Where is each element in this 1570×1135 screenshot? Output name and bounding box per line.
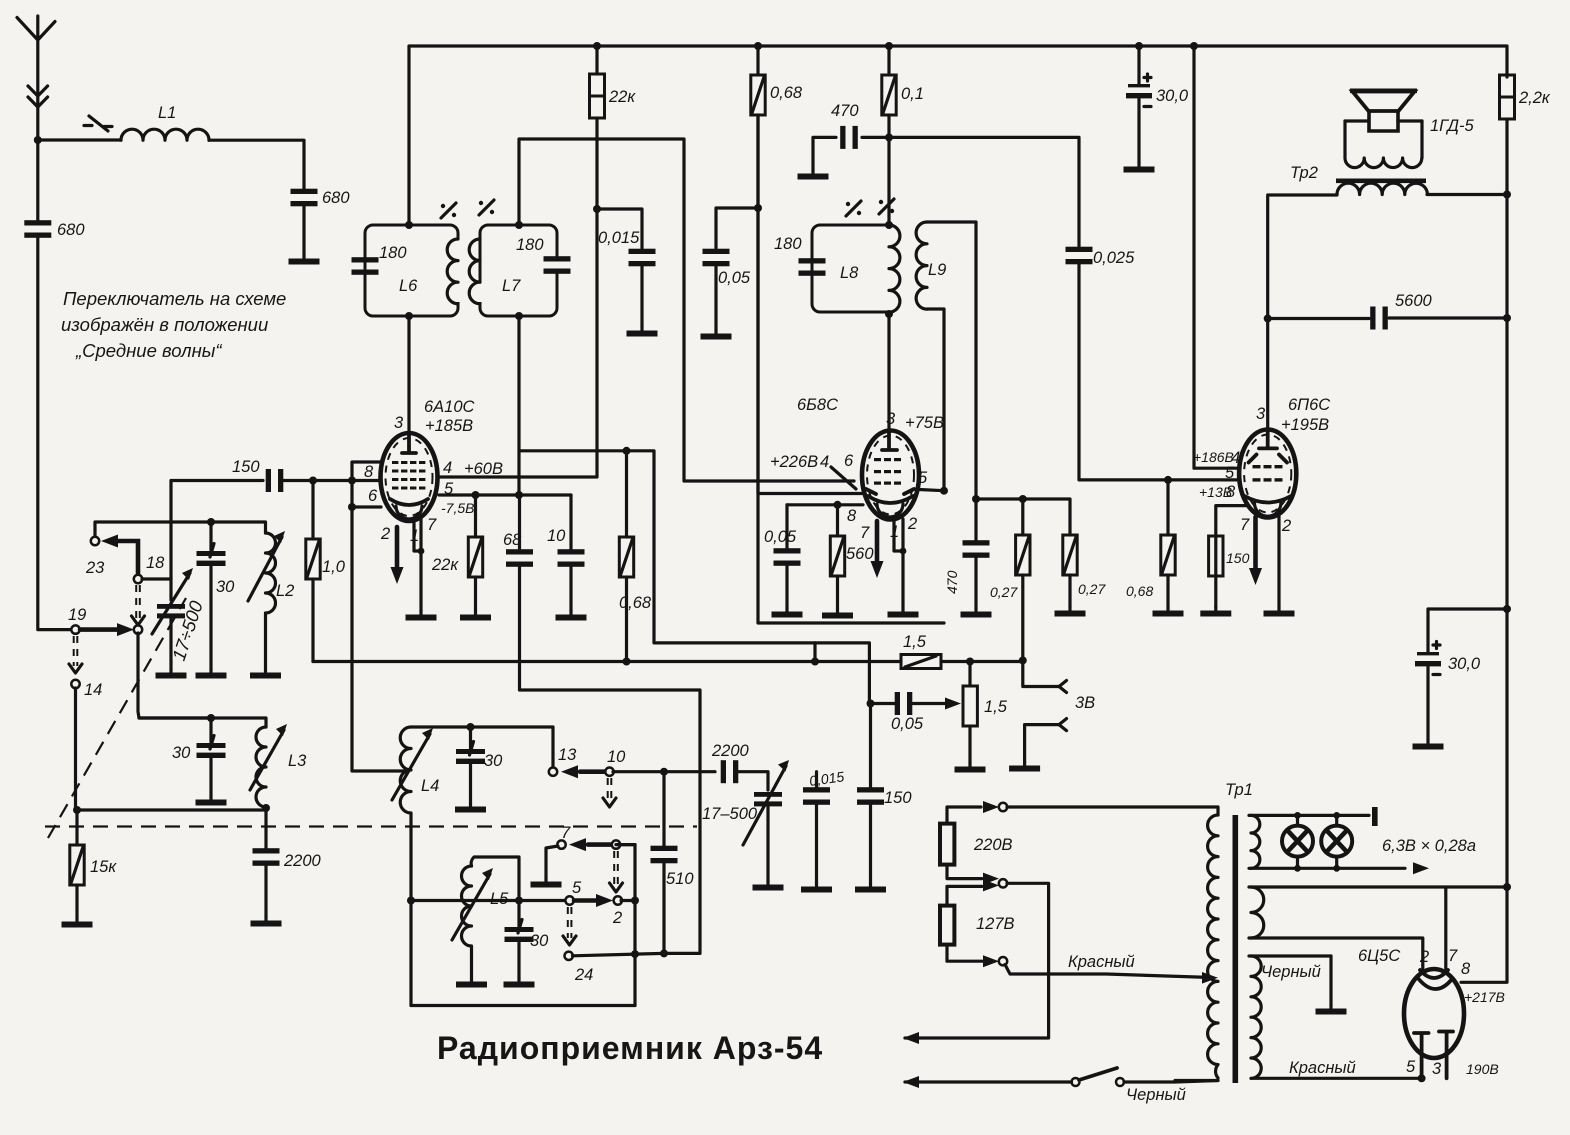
tube U3 6П6С envelope — [1239, 430, 1296, 518]
svg-text:680: 680 — [322, 189, 350, 207]
svg-text:L3: L3 — [288, 752, 307, 770]
wire 22к column down to pin4 — [439, 209, 597, 477]
svg-text:-7,5В: -7,5В — [441, 500, 474, 516]
wire Черный to ground — [1329, 956, 1332, 1005]
svg-text:Красный: Красный — [1289, 1059, 1356, 1077]
inductor L3 — [256, 727, 266, 807]
svg-text:3: 3 — [394, 414, 404, 432]
contact 24 — [565, 952, 573, 960]
wire grid line from 150 cap — [280, 479, 381, 482]
node anode / 5600 — [1264, 315, 1272, 323]
node antenna junction — [34, 136, 42, 144]
wire 127В bottom — [947, 945, 982, 962]
svg-text:„Средние волны“: „Средние волны“ — [75, 340, 222, 361]
tube U2 cathode arrow — [875, 521, 880, 562]
svg-text:Черный: Черный — [1126, 1086, 1186, 1104]
Тр1 HV winding — [1251, 956, 1422, 1078]
svg-text:3: 3 — [886, 410, 896, 428]
capacitor 2200 — [253, 848, 280, 866]
switch arm 10-13 — [580, 769, 605, 774]
svg-text:Тр1: Тр1 — [1225, 781, 1253, 799]
tube U4 heater arcs — [1420, 970, 1448, 978]
capacitor 180 (L8) — [799, 258, 826, 276]
svg-text:2,2к: 2,2к — [1518, 89, 1551, 107]
svg-text:510: 510 — [666, 870, 694, 888]
core adjust mark L7 — [479, 200, 494, 215]
wire middle contact loop — [905, 883, 1049, 1038]
speaker 1ГД-5 — [1369, 111, 1398, 132]
wire 0,1 column to L8 to tube2 pin3 — [887, 137, 890, 431]
svg-text:2: 2 — [380, 525, 390, 543]
svg-text:5: 5 — [572, 879, 582, 897]
tube U3 pin2 ground — [1277, 516, 1280, 607]
wire 2200 to osc tuning cap — [738, 772, 768, 790]
svg-text:5: 5 — [918, 469, 928, 487]
contact mains bottom — [999, 957, 1007, 965]
capacitor 180 (L7) — [544, 256, 571, 274]
wire 220В top — [947, 807, 981, 824]
svg-text:Тр2: Тр2 — [1290, 164, 1318, 182]
resistor 0,68 (osc anode) — [625, 451, 628, 537]
switch arm 19 — [80, 627, 117, 632]
svg-text:127В: 127В — [976, 915, 1015, 933]
tube U3 plate — [1259, 429, 1277, 448]
dashed link 5-24 — [568, 907, 572, 938]
wire L1 to C2 — [209, 140, 304, 192]
wire 127В top to middle contact — [947, 886, 982, 905]
dashed link 7b-2 — [614, 851, 618, 885]
svg-text:+186В: +186В — [1193, 449, 1234, 465]
svg-text:1,0: 1,0 — [322, 558, 346, 576]
electrolytic capacitor 30,0 — [1137, 46, 1140, 84]
svg-text:470: 470 — [944, 570, 960, 594]
tube U4 plates — [1414, 1032, 1453, 1079]
svg-text:+75В: +75В — [905, 414, 944, 432]
svg-text:2: 2 — [907, 515, 917, 533]
dashed gang diagonal — [48, 598, 186, 838]
trimmer 30 (L5) — [505, 920, 534, 943]
resistor 0,68 (grid leak U3) — [1166, 480, 1169, 535]
wire 10 to 2200 — [613, 770, 715, 773]
wire AVC row — [976, 499, 1070, 535]
dash-dot gang line — [45, 825, 697, 827]
svg-text:0,68: 0,68 — [770, 84, 803, 102]
svg-text:L4: L4 — [421, 777, 439, 795]
svg-text:17–500: 17–500 — [702, 805, 758, 823]
capacitor 680 (right) — [291, 189, 318, 207]
wire antenna down — [36, 140, 39, 220]
wire bus to 3В node — [941, 660, 1023, 663]
svg-text:2: 2 — [1419, 948, 1429, 966]
svg-text:L2: L2 — [276, 582, 294, 600]
svg-text:0,05: 0,05 — [718, 269, 751, 287]
wire L7 top to grid feed — [519, 139, 854, 481]
contact mains middle — [999, 879, 1007, 887]
svg-text:190В: 190В — [1466, 1061, 1499, 1077]
contact 18 — [134, 575, 142, 583]
contact 19 — [71, 625, 79, 633]
node L8 top / bottom — [885, 221, 893, 229]
svg-text:68: 68 — [503, 531, 522, 549]
wire 470 node to 0,025 — [889, 137, 1079, 246]
resistor 0,68 (R2) — [756, 46, 759, 75]
resistor 1,5 (series AF) — [901, 655, 941, 669]
svg-text:0,68: 0,68 — [619, 594, 652, 612]
wire pin5 row — [439, 493, 571, 496]
svg-text:1,5: 1,5 — [984, 698, 1008, 716]
svg-text:180: 180 — [774, 235, 802, 253]
switch arm 5-2 — [574, 898, 598, 903]
capacitor 0,05 (AF coupling) with arrow — [867, 700, 875, 708]
resistor 560 — [836, 505, 839, 536]
svg-text:22к: 22к — [608, 88, 636, 106]
svg-text:Радиоприемник Арз-54: Радиоприемник Арз-54 — [437, 1030, 823, 1066]
svg-text:15к: 15к — [90, 858, 117, 876]
svg-text:2: 2 — [1281, 517, 1291, 535]
fuse 220В — [940, 824, 954, 865]
resistor 1,0 (grid leak) — [311, 481, 314, 540]
switch arm 7 — [588, 842, 612, 847]
resistor 2,2к (R4) — [1500, 75, 1515, 119]
capacitor 10 — [569, 495, 572, 549]
resistor 0,1 (R3) — [887, 46, 890, 75]
wire 14 down — [74, 688, 77, 810]
wire to 3В fork lower — [1025, 725, 1059, 762]
svg-text:680: 680 — [57, 221, 85, 239]
contact 19b — [134, 625, 142, 633]
wire 150 left to tuner — [171, 481, 263, 601]
svg-text:30: 30 — [530, 932, 549, 950]
svg-text:L8: L8 — [840, 264, 859, 282]
svg-text:Переключатель на схеме: Переключатель на схеме — [63, 288, 286, 309]
svg-text:180: 180 — [516, 236, 544, 254]
cathode box left — [758, 208, 944, 623]
capacitor 150 (grid coupling) — [266, 469, 284, 492]
svg-text:560: 560 — [846, 545, 874, 563]
contact mains top — [999, 803, 1007, 811]
electrolytic 30,0 (output) — [1428, 609, 1507, 652]
wire anode to Tp2 — [1268, 195, 1337, 319]
tube U1 cathode arcs — [390, 499, 428, 505]
resistor 22к (R1) — [595, 46, 598, 74]
wire 24 row — [573, 953, 665, 955]
svg-text:23: 23 — [85, 559, 105, 577]
IF can L7 box — [480, 225, 557, 316]
rectifier tube 6Ц5С — [1404, 969, 1464, 1058]
wire L3 bottom row — [77, 808, 266, 850]
resistor 22к (osc grid) — [474, 495, 477, 537]
capacitor 180 (L6) — [352, 257, 379, 275]
capacitor 0,05 (cathode) — [785, 505, 788, 548]
svg-text:8: 8 — [1226, 483, 1236, 501]
wire top bus — [409, 46, 1507, 225]
contact 10 — [605, 768, 613, 776]
capacitor 68 — [506, 549, 533, 567]
wire L9 top to AVC column — [927, 222, 976, 499]
tube U2 diode plates — [866, 489, 914, 494]
tube U4 pin wires — [1423, 887, 1507, 969]
wire 0,68 column down — [758, 115, 862, 494]
svg-text:6: 6 — [368, 487, 378, 505]
svg-text:0,05: 0,05 — [891, 715, 924, 733]
node L7 bottom — [515, 312, 523, 320]
tube U2 plate — [882, 431, 897, 450]
potentiometer 1,5 (volume) — [968, 662, 971, 687]
svg-text:+195В: +195В — [1281, 416, 1329, 434]
variable capacitor 17-500 — [157, 604, 185, 609]
node grid row — [1164, 476, 1172, 484]
svg-text:13: 13 — [558, 746, 577, 764]
svg-text:6: 6 — [844, 452, 854, 470]
wire 18 to trimmer column — [142, 577, 171, 580]
svg-text:2200: 2200 — [283, 852, 322, 870]
wire L3 top — [139, 718, 266, 727]
wire L4 col to L5 row — [411, 899, 566, 902]
svg-text:19: 19 — [68, 606, 86, 624]
lamp HL2 — [1321, 826, 1352, 857]
wire osc column — [633, 845, 636, 1006]
svg-text:30: 30 — [484, 752, 503, 770]
tube U2 grids — [874, 458, 901, 485]
switch S1 (range switch mark) — [84, 116, 112, 131]
tube U3 cathode arrow — [1253, 517, 1258, 569]
wire L7 bottom down to pin5 row — [517, 316, 520, 495]
contact 5 — [565, 896, 573, 904]
capacitor 0,015 (IF filter) — [597, 209, 642, 248]
svg-text:0,68: 0,68 — [1126, 583, 1153, 599]
svg-text:0,1: 0,1 — [901, 85, 924, 103]
capacitor 470 with ground — [813, 137, 889, 170]
dashed link 18-19 — [136, 585, 140, 618]
svg-text:470: 470 — [831, 102, 859, 120]
svg-text:24: 24 — [574, 966, 593, 984]
svg-text:2200: 2200 — [711, 742, 750, 760]
wire 220В bottom to middle contact — [947, 865, 982, 879]
wire 0,68 feed — [519, 451, 869, 704]
svg-text:+185В: +185В — [425, 417, 473, 435]
svg-text:2: 2 — [612, 909, 622, 927]
wire U3 anode up — [1266, 319, 1269, 430]
svg-text:14: 14 — [84, 681, 102, 699]
svg-text:0,015: 0,015 — [598, 229, 640, 247]
svg-text:220В: 220В — [973, 836, 1013, 854]
Тр1 rectifier heater winding — [1251, 887, 1264, 938]
capacitor 0,015 (osc) — [815, 772, 818, 790]
svg-text:6П6С: 6П6С — [1288, 396, 1330, 414]
wire L4 top row — [411, 727, 553, 767]
svg-text:5600: 5600 — [1395, 292, 1433, 310]
svg-text:30,0: 30,0 — [1448, 655, 1481, 673]
wire 2 to column — [621, 899, 635, 902]
svg-text:8: 8 — [847, 507, 857, 525]
svg-text:10: 10 — [607, 748, 626, 766]
svg-text:0,05: 0,05 — [764, 528, 797, 546]
resistor 0,27 (second) — [1063, 535, 1077, 575]
capacitor 5600 — [1268, 317, 1369, 320]
callout diagonal to grid — [831, 467, 856, 489]
inductor L1 — [121, 129, 209, 140]
core adjust mark L9 — [879, 199, 894, 214]
node bus dots — [593, 42, 601, 50]
svg-text:30: 30 — [216, 578, 235, 596]
svg-text:6Ц5С: 6Ц5С — [1358, 947, 1400, 965]
wire osc bottom bus — [411, 1004, 635, 1007]
lamp HL1 — [1282, 826, 1313, 857]
transformer Тр2 primary — [1337, 183, 1507, 194]
svg-text:0,27: 0,27 — [1078, 581, 1106, 597]
svg-text:8: 8 — [1461, 960, 1471, 978]
node pin5 — [940, 487, 948, 495]
svg-text:+226В: +226В — [770, 453, 818, 471]
trimmer 30 (L2) — [197, 544, 226, 567]
node L7 top — [515, 221, 523, 229]
tube U1 pin1/7 to ground — [414, 519, 421, 611]
svg-text:4: 4 — [820, 453, 829, 471]
contact 13 — [549, 768, 557, 776]
contact 7 — [557, 840, 565, 848]
inductor L6 — [447, 239, 458, 304]
transformer Тр2 secondary + frame — [1345, 121, 1422, 168]
node 3В feed — [1019, 656, 1027, 664]
transformer Тр1 core — [1233, 815, 1239, 1083]
inductor L8 — [889, 225, 900, 312]
Тр1 heater winding 6,3В — [1251, 815, 1260, 868]
svg-text:7: 7 — [561, 824, 571, 842]
svg-text:22к: 22к — [431, 556, 459, 574]
contact 2 — [614, 896, 622, 904]
contact 14 — [71, 680, 79, 688]
svg-text:Красный: Красный — [1068, 953, 1135, 971]
svg-text:18: 18 — [146, 554, 165, 572]
wire L9 bottom down to pin5 node — [927, 309, 944, 491]
contact 23 — [91, 537, 99, 545]
capacitor 510 — [662, 772, 665, 848]
svg-text:L7: L7 — [502, 277, 521, 295]
tube U2 cathode arcs — [868, 496, 913, 503]
svg-text:0,27: 0,27 — [990, 584, 1018, 600]
svg-text:1,5: 1,5 — [903, 633, 927, 651]
wire L6 bottom to tube pin3 — [407, 316, 410, 433]
capacitor 470 (AVC) — [974, 499, 977, 540]
wire jog to bus — [813, 643, 816, 662]
terminal bar — [1372, 807, 1378, 826]
inductor L9 — [916, 222, 927, 309]
wire right bus down — [1461, 190, 1507, 982]
svg-text:3: 3 — [1432, 1060, 1442, 1078]
trimmer 30 (L3) — [197, 736, 226, 759]
inductor L2 — [266, 533, 276, 669]
inductor L7 — [469, 239, 480, 304]
svg-text:5: 5 — [1406, 1058, 1416, 1076]
inductor L4 — [400, 727, 411, 1006]
transformer Тр1 primary — [1208, 815, 1218, 1078]
wire 0,05 down to 150 cap — [869, 704, 872, 791]
variable capacitor 17-500 (osc) — [754, 792, 782, 797]
svg-text:3В: 3В — [1075, 694, 1095, 712]
wire cathode row — [787, 503, 863, 506]
ground — [289, 255, 320, 265]
switch S2 mains — [1072, 1078, 1080, 1086]
contact 7b — [612, 840, 620, 848]
tube U1 pin8/6 stubs — [352, 462, 381, 507]
inductor L5 — [471, 857, 519, 896]
svg-text:Черный: Черный — [1261, 963, 1321, 981]
wire to 3В fork upper — [1023, 660, 1059, 686]
IF can L8 box — [812, 225, 889, 312]
wire tap Красный — [1005, 965, 1212, 978]
node L3 bottom — [262, 804, 270, 812]
svg-text:180: 180 — [379, 244, 407, 262]
wire converter grid column to L4 tap — [352, 507, 406, 771]
dashed link 19-14 — [74, 636, 78, 666]
wire 0,025 down to tube3 grid — [1079, 262, 1240, 480]
wire antenna to L1 — [38, 138, 121, 141]
svg-text:6,3В × 0,28а: 6,3В × 0,28а — [1382, 837, 1476, 855]
svg-text:7: 7 — [860, 524, 870, 542]
core adjust mark L8 — [846, 201, 861, 216]
svg-text:10: 10 — [547, 527, 566, 545]
transformer Тр2 core — [1336, 179, 1426, 184]
svg-text:L1: L1 — [158, 104, 176, 122]
tube U1 cathode arrow — [395, 527, 400, 568]
tube U1 6А10С envelope — [381, 433, 438, 521]
antenna W1 — [17, 16, 55, 140]
resistor 15к — [75, 810, 78, 845]
svg-text:30,0: 30,0 — [1156, 87, 1189, 105]
tube U3 cathode arcs — [1245, 496, 1292, 503]
svg-text:6Б8С: 6Б8С — [797, 396, 838, 414]
svg-text:6А10С: 6А10С — [424, 398, 475, 416]
tube U3 grids — [1253, 465, 1283, 482]
capacitor 0,025 — [1066, 247, 1093, 265]
tube U2 6Б8С envelope — [862, 431, 919, 520]
capacitor 2200 (padder) — [721, 760, 739, 783]
svg-text:150: 150 — [884, 789, 912, 807]
node L6 top — [405, 221, 413, 229]
svg-text:5: 5 — [1225, 464, 1235, 482]
wire mains top to Тр1 — [1007, 807, 1218, 815]
switch arm 23 — [116, 541, 138, 573]
wire screen feed x=1194 — [1194, 46, 1240, 468]
svg-text:150: 150 — [232, 458, 260, 476]
svg-text:4: 4 — [443, 459, 452, 477]
wire 7 to ground — [546, 846, 558, 878]
wire AGC bus — [313, 660, 901, 663]
capacitor 0,05 (screen bypass) — [716, 208, 758, 248]
wire 68 down and right — [520, 564, 701, 953]
svg-text:L9: L9 — [928, 261, 946, 279]
svg-text:8: 8 — [364, 463, 374, 481]
svg-text:7: 7 — [1448, 947, 1458, 965]
svg-text:+217В: +217В — [1464, 989, 1505, 1005]
dashed stub below 10 — [608, 778, 612, 800]
wire 19b down to L4 feed — [138, 633, 213, 718]
trimmer 30 (L4) — [456, 742, 485, 765]
resistor 0,27 (first) — [1021, 499, 1024, 535]
wire grid bus to L2 — [95, 522, 266, 538]
capacitor 150 (osc) — [857, 787, 884, 805]
resistor 150 (cathode U3) — [1216, 506, 1246, 536]
svg-text:+60В: +60В — [464, 460, 503, 478]
fuse 127В — [940, 906, 954, 945]
svg-text:7: 7 — [427, 516, 437, 534]
IF can L6 box — [365, 225, 458, 316]
wire 7b right — [620, 843, 635, 846]
svg-text:0,025: 0,025 — [1093, 249, 1135, 267]
capacitor 680 (left) — [24, 220, 51, 238]
core adjust mark L6 — [441, 203, 456, 218]
tube U1 plate — [402, 433, 416, 453]
